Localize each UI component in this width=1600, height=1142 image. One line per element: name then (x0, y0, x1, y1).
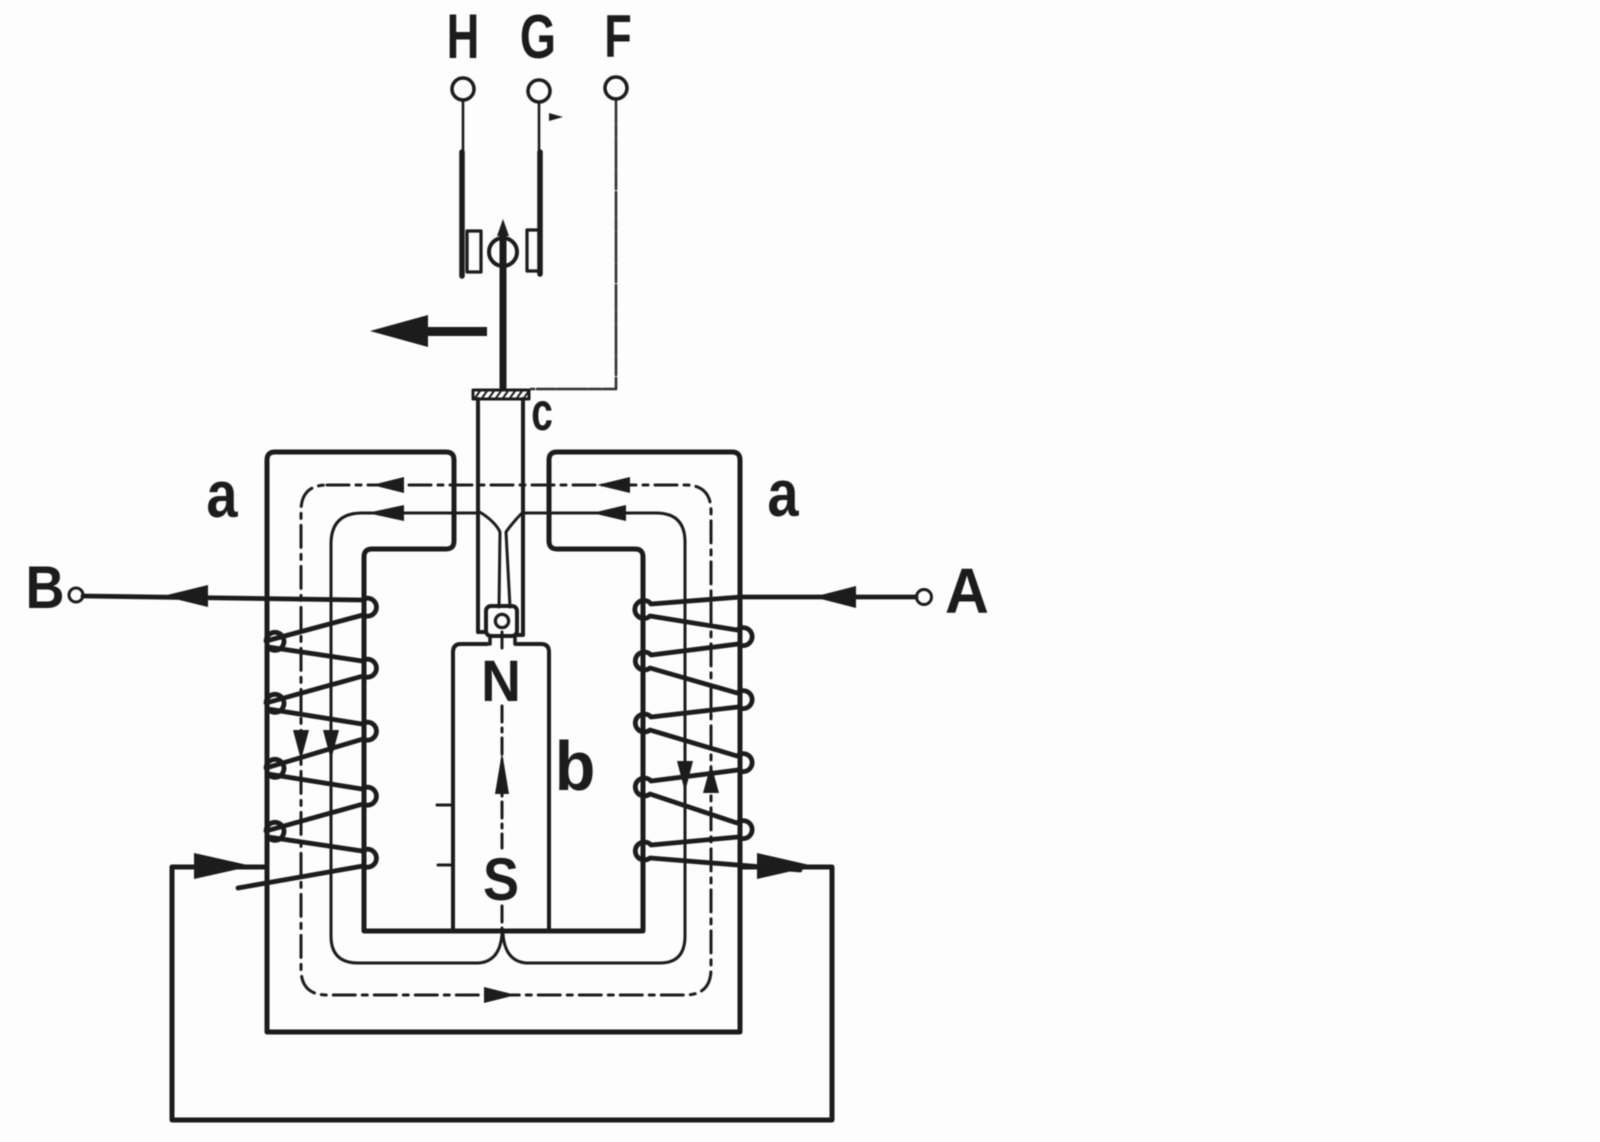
flux V split inside tongue (left) (478, 511, 500, 607)
svg-text:a: a (206, 458, 238, 531)
chain flux arrow left limb down (293, 730, 309, 760)
motion arrow (left) (370, 315, 487, 347)
armature head block c (hatched flange) (473, 390, 529, 399)
armature tongue right wall (517, 399, 523, 635)
chain flux arrow top-left (372, 477, 404, 493)
armature spear tip (497, 219, 509, 236)
iron core U-frame with pole pieces (267, 452, 740, 1032)
terminal A circle (917, 590, 932, 605)
terminal H circle (452, 78, 474, 100)
arrow on wire B (163, 585, 208, 607)
wire H lead (462, 100, 465, 152)
magnet axis chain line (501, 632, 504, 931)
svg-text:G: G (520, 1, 556, 71)
left coil winding (83, 596, 376, 888)
chain flux arrow bottom (484, 987, 516, 1003)
contact spring H (459, 152, 465, 276)
right coil winding (635, 597, 916, 870)
svg-text:A: A (945, 556, 989, 628)
magnet b outline (453, 644, 487, 931)
svg-text:B: B (26, 554, 65, 621)
contact spring G (537, 152, 543, 274)
tick mark left of magnet upper (437, 804, 451, 807)
tick mark left of magnet lower (438, 864, 451, 867)
terminal B circle (69, 588, 83, 602)
chain flux arrow top-right (597, 477, 630, 493)
svg-text:H: H (447, 1, 480, 72)
terminal G circle (528, 80, 550, 102)
solid flux arrow top-left (367, 505, 404, 521)
solid flux arrow top-right (592, 505, 626, 521)
svg-text:a: a (767, 457, 799, 530)
base frame (172, 867, 832, 1120)
armature shaft (500, 233, 507, 388)
coil flux chain-dotted loop (301, 485, 711, 995)
terminal F circle (605, 77, 627, 99)
base frame arrow left (194, 853, 252, 879)
chain flux arrow right limb up (703, 764, 719, 793)
small tick arrow near G (549, 113, 563, 121)
arrow on wire A (813, 586, 856, 608)
solid flux arrow right limb down (677, 761, 693, 792)
base frame arrow right (757, 853, 814, 879)
contact bracket H (467, 231, 481, 272)
pivot bearing bracket (486, 606, 517, 636)
wire G lead (538, 102, 541, 152)
svg-text:b: b (555, 727, 596, 805)
magnet neck (490, 636, 515, 644)
svg-text:S: S (483, 846, 519, 913)
armature pivot circle (489, 238, 517, 266)
bearing circle (496, 615, 509, 628)
magnet flux solid line left loop (331, 513, 502, 963)
wire F (531, 99, 616, 389)
svg-text:c: c (531, 381, 553, 442)
magnet flux up arrow (495, 752, 509, 794)
contact bracket G (527, 230, 540, 271)
armature tongue left wall (478, 399, 486, 632)
svg-text:F: F (604, 4, 631, 71)
flux V split inside tongue (right) (506, 512, 523, 607)
svg-text:N: N (481, 649, 521, 714)
solid flux arrow left limb down (323, 730, 339, 760)
magnet flux solid line right loop (503, 513, 685, 963)
